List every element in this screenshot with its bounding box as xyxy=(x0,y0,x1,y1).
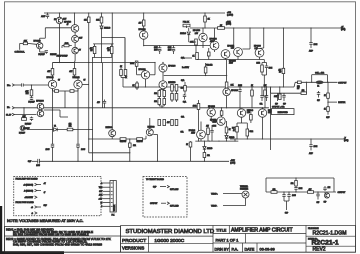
wire feedback bus xyxy=(27,129,93,131)
wire Q2 emitter down xyxy=(39,49,41,52)
wire Q18 to Q18b xyxy=(210,116,212,121)
resistor R47 vert xyxy=(295,181,298,187)
wire pair links xyxy=(124,38,126,70)
wire Q8 collector down xyxy=(143,39,145,45)
capacitor C23 vert xyxy=(295,186,297,187)
svg-text:(-80V): (-80V) xyxy=(230,163,235,165)
wire Q20 top xyxy=(262,108,264,109)
wire Q0 stubs xyxy=(59,13,61,17)
svg-text:1K: 1K xyxy=(233,130,235,132)
svg-text:SLFT L-RED: SLFT L-RED xyxy=(170,206,179,208)
svg-text:PR1 1K: PR1 1K xyxy=(183,22,190,24)
svg-text:1N4148: 1N4148 xyxy=(104,28,110,30)
resistor R40b xyxy=(203,153,206,158)
capacitor C18 xyxy=(277,93,279,95)
svg-text:STUDIOMASTER DIAMOND LTD: STUDIOMASTER DIAMOND LTD xyxy=(126,229,215,235)
wire bias links xyxy=(188,40,190,42)
resistor R25b pair xyxy=(171,94,174,101)
svg-text:1N4148: 1N4148 xyxy=(180,33,186,35)
svg-text:P.A.: P.A. xyxy=(232,247,239,251)
resistor R44 xyxy=(327,93,330,98)
transistor Q8 xyxy=(140,31,148,39)
svg-text:REV2: REV2 xyxy=(313,247,326,253)
transistor Q18 predriver xyxy=(207,108,215,116)
capacitor C4 input xyxy=(21,83,23,86)
wire resistor bottoms xyxy=(94,54,96,58)
capacitor C15 pair xyxy=(266,63,268,66)
svg-text:TITLE: TITLE xyxy=(216,229,227,233)
wire R37 down xyxy=(129,147,131,161)
resistor R8 feedback xyxy=(67,128,73,131)
svg-text:R2C21-1: R2C21-1 xyxy=(312,239,339,246)
wire zobel loop top xyxy=(266,177,334,179)
capacitor C11 vas xyxy=(104,100,106,102)
svg-text:1N4148: 1N4148 xyxy=(229,137,234,139)
connector pin IN+ xyxy=(12,84,14,87)
wire mirror right links xyxy=(44,109,60,111)
resistor R31 xyxy=(197,104,200,110)
connector pin 0V xyxy=(12,107,14,110)
svg-text:MPSA06: MPSA06 xyxy=(229,60,236,63)
wire R9 to D2 xyxy=(101,23,103,26)
revision notes box xyxy=(5,227,121,253)
transistor Q23 xyxy=(197,130,206,139)
wire Q12 links xyxy=(249,28,251,49)
resistor R48 xyxy=(308,191,314,194)
capacitor C8 electrolytic xyxy=(159,46,161,48)
resistor R6 xyxy=(22,118,27,121)
capacitor C22 electrolytic xyxy=(288,192,290,195)
transistor Q13 xyxy=(255,48,264,57)
wire pair to bus xyxy=(261,72,263,75)
inductor L1 coil xyxy=(316,81,324,85)
svg-text:1N4148: 1N4148 xyxy=(207,148,212,150)
resistor R43 xyxy=(301,92,306,95)
svg-text:3V: 3V xyxy=(58,80,60,82)
wire Q17 links xyxy=(226,87,228,89)
capacitor C12 xyxy=(183,94,186,96)
capacitor C19 xyxy=(283,93,285,95)
wire 0VP bus xyxy=(39,160,229,162)
wire rail drop x143.7 xyxy=(143,13,145,20)
wire mid bus y45.6 xyxy=(144,45,213,47)
resistor R30 xyxy=(264,87,266,90)
svg-text:BVREF: BVREF xyxy=(23,128,30,130)
wire emitter mid xyxy=(59,90,71,92)
svg-text:MPSA06: MPSA06 xyxy=(36,100,43,103)
wire Q9 links xyxy=(202,28,204,33)
preset PR2 xyxy=(204,67,207,73)
svg-text:COIL + 10R: COIL + 10R xyxy=(315,73,325,75)
transistor Q17 xyxy=(223,88,231,96)
wire D2 down xyxy=(101,29,103,38)
resistor R20 xyxy=(136,83,139,88)
svg-text:0VP: 0VP xyxy=(324,201,327,203)
svg-text:PRODUCT: PRODUCT xyxy=(122,238,146,244)
wire zobel up xyxy=(305,82,307,93)
resistor R40 xyxy=(189,142,192,147)
svg-text:(80V): (80V) xyxy=(344,140,349,142)
wire +V rail xyxy=(190,27,345,29)
resistor R26 pair xyxy=(175,85,178,92)
capacitor C21 electrolytic xyxy=(283,192,285,195)
resistor R5 Q4 collector xyxy=(74,63,76,69)
wire bus y141 xyxy=(195,140,238,142)
svg-text:+SLP: +SLP xyxy=(99,199,103,201)
scan shadow left edge xyxy=(0,206,2,254)
svg-text:4R7: 4R7 xyxy=(167,122,170,124)
resistor R33 under Q19 xyxy=(241,117,243,123)
svg-text:100U: 100U xyxy=(154,47,158,49)
svg-text:MJE340: MJE340 xyxy=(247,110,253,112)
wire cap drop left xyxy=(52,130,54,145)
svg-text:R47: R47 xyxy=(232,128,235,130)
svg-text:AMPLIFIER AMP CIRCUIT: AMPLIFIER AMP CIRCUIT xyxy=(231,228,293,234)
connector pin SL xyxy=(12,113,14,116)
svg-text:OUTPUT: OUTPUT xyxy=(338,82,347,84)
wire y152.8 stub xyxy=(89,152,130,154)
wire input+ xyxy=(14,84,21,86)
resistor R41b pair xyxy=(263,60,265,63)
capacitor C4b xyxy=(31,96,33,98)
svg-text:MJ15003: MJ15003 xyxy=(106,127,113,129)
transistor Q0 rail xyxy=(56,17,63,24)
wire rail drop x101.5 xyxy=(101,13,103,17)
wire Q3b down to bus xyxy=(74,54,76,61)
transistor Q21 output xyxy=(109,130,116,137)
capacitor C19c pair xyxy=(266,87,268,95)
resistor R3 bias xyxy=(31,85,33,90)
transistor Q3b stack xyxy=(72,47,79,54)
resistor R39 xyxy=(225,127,228,133)
svg-text:MPSA06: MPSA06 xyxy=(208,105,215,108)
wire Q19 top xyxy=(239,108,241,109)
transistor Q4 diff pair right xyxy=(74,80,82,88)
resistor ladder right b xyxy=(171,120,174,126)
resistor R2b bias cluster xyxy=(64,44,69,47)
resistor R14 xyxy=(218,27,225,30)
wire zobel bottom xyxy=(266,191,336,193)
wire bias bottom bus xyxy=(197,59,264,61)
transistor Q20 driver xyxy=(258,109,266,117)
wire temp- xyxy=(223,205,246,207)
svg-text:SLFT L-BLU: SLFT L-BLU xyxy=(170,189,178,191)
wire output line xyxy=(295,81,337,83)
resistor R28 xyxy=(225,82,228,88)
svg-text:D1: D1 xyxy=(54,126,56,128)
wire zobel caps join xyxy=(283,199,285,201)
wire 0VA stub xyxy=(181,57,193,59)
svg-text:OUTPUT: OUTPUT xyxy=(150,203,158,205)
diode D5 xyxy=(203,141,205,146)
capacitor C20 xyxy=(317,92,320,94)
wire Q13 links xyxy=(263,28,265,48)
transistor Q12 xyxy=(234,48,243,57)
svg-text:1.2V: 1.2V xyxy=(231,47,234,49)
capacitor C7 electrolytic xyxy=(76,143,79,145)
resistor R1 xyxy=(23,42,27,45)
wire Q22 base drop xyxy=(149,118,151,129)
svg-text:FILE NAME: FILE NAME xyxy=(308,227,319,230)
svg-text:NOTE: VOLTAGES MEASURED AT 230: NOTE: VOLTAGES MEASURED AT 230V A.C. xyxy=(7,219,83,223)
svg-text:R2C21-1.DGM: R2C21-1.DGM xyxy=(313,230,347,236)
svg-text:45MV: 45MV xyxy=(212,122,216,124)
resistor R23 grid xyxy=(158,99,161,105)
svg-text:3V: 3V xyxy=(79,49,81,51)
capacitor C19b pair xyxy=(261,87,263,95)
diode D3 xyxy=(188,28,190,31)
resistor R43b xyxy=(279,94,282,100)
resistor R19 pair b xyxy=(124,70,127,76)
svg-text:TEMP-: TEMP- xyxy=(211,205,218,207)
wire +V drop x283.4 xyxy=(282,28,284,68)
wire bus jog to output xyxy=(294,82,295,87)
capacitor C17 xyxy=(309,144,312,146)
wire control to R1 xyxy=(20,42,24,44)
transistor Q2b stack xyxy=(72,35,79,42)
svg-text:MPSA06: MPSA06 xyxy=(231,89,238,92)
svg-text:MPSA06: MPSA06 xyxy=(254,45,261,48)
capacitor C2 0VP bus series xyxy=(37,159,39,164)
wire -V rail xyxy=(230,138,345,140)
svg-text:1K: 1K xyxy=(186,144,188,146)
svg-text:0VP: 0VP xyxy=(275,103,278,105)
wire x279.8 drop xyxy=(279,87,281,94)
wire R10 to Q8 xyxy=(143,26,145,31)
transistor Q9 xyxy=(199,33,207,41)
thermal breaker B1 xyxy=(242,191,249,198)
wire y75.5 link bus xyxy=(164,75,227,77)
wire to 0VP xyxy=(327,111,329,115)
svg-text:4V: 4V xyxy=(67,24,69,26)
wire zobel left leg xyxy=(265,178,267,192)
resistor R11 xyxy=(94,44,96,47)
transistor Q22 output xyxy=(146,129,153,136)
svg-text:4K7: 4K7 xyxy=(278,69,281,71)
wire long drop x92.5 xyxy=(92,57,94,161)
svg-text:1K: 1K xyxy=(229,129,231,131)
svg-text:BVREF: BVREF xyxy=(38,54,45,56)
svg-text:L1: L1 xyxy=(317,85,319,87)
wire R17 to Q14 base xyxy=(136,66,138,75)
svg-text:100N: 100N xyxy=(213,126,217,128)
svg-text:3V: 3V xyxy=(84,80,86,82)
transistor Q1 xyxy=(71,25,79,33)
wire drop x125 xyxy=(124,38,126,74)
svg-text:PR2 2K2: PR2 2K2 xyxy=(206,64,212,66)
svg-text:(80V): (80V) xyxy=(341,29,346,31)
wire feedback column top xyxy=(88,13,90,17)
title block frame xyxy=(121,226,356,253)
capacitor C6 electrolytic xyxy=(51,143,54,145)
wire meter branch xyxy=(327,82,329,93)
svg-text:0VP: 0VP xyxy=(283,103,286,105)
svg-text:CONTROL: CONTROL xyxy=(15,52,26,54)
resistor R26b pair xyxy=(175,94,178,101)
svg-text:0VP: 0VP xyxy=(317,100,320,102)
wire -V drop xyxy=(234,139,236,141)
svg-text:PL1: PL1 xyxy=(111,214,114,216)
resistor R15b xyxy=(196,53,199,60)
wire vas top bus xyxy=(53,62,156,64)
wire x59.5 feed down xyxy=(59,28,61,63)
resistor R38 pair xyxy=(207,128,210,135)
wire diff emitters xyxy=(52,89,54,91)
svg-text:0VP: 0VP xyxy=(316,202,319,204)
svg-text:DRN BY: DRN BY xyxy=(215,247,230,251)
svg-text:-B: -B xyxy=(31,213,33,215)
wire long drop x112.25 xyxy=(111,13,113,130)
svg-text:100U: 100U xyxy=(168,47,172,49)
svg-text:METER: METER xyxy=(338,102,346,104)
svg-text:SL 1P: SL 1P xyxy=(6,115,12,117)
resistor R34b inter-driver xyxy=(250,115,253,121)
wire pair links xyxy=(207,135,209,142)
resistor R21 grid xyxy=(158,91,161,97)
svg-text:45MV: 45MV xyxy=(191,132,195,134)
capacitor C13 xyxy=(239,87,241,90)
svg-text:MPSA56: MPSA56 xyxy=(193,29,200,32)
wire Q4 collector down xyxy=(77,89,79,130)
transistor Q14 xyxy=(141,71,149,79)
wire emitter center node xyxy=(129,138,130,139)
svg-text:MJ15003: MJ15003 xyxy=(148,127,155,129)
resistor ladder right a xyxy=(158,120,161,126)
capacitor C16 xyxy=(309,42,312,44)
wire 0V feedback bus xyxy=(14,107,269,109)
wire Q2b to Q3b xyxy=(74,42,76,47)
resistor R15 xyxy=(195,39,198,45)
svg-text:IN-: IN- xyxy=(7,107,10,109)
transistor Q19 driver xyxy=(237,109,245,117)
wire emitter bus xyxy=(89,138,146,140)
svg-text:REMOVED: REMOVED xyxy=(278,112,289,114)
resistor R42s series xyxy=(298,81,302,84)
svg-text:10N: 10N xyxy=(328,187,331,189)
wire Q15 links xyxy=(162,63,164,64)
wire vas mid bus y87 xyxy=(123,86,294,88)
svg-text:4K7: 4K7 xyxy=(206,126,209,128)
svg-text:(+80V): (+80V) xyxy=(226,24,232,26)
wire SL input xyxy=(14,114,36,116)
wire cross link xyxy=(102,37,126,39)
wire Q1 base chain xyxy=(45,27,71,29)
svg-text:MPSA92: MPSA92 xyxy=(138,28,145,31)
svg-text:4K7: 4K7 xyxy=(138,23,141,25)
transistor Q2 control xyxy=(37,43,43,49)
wire Q4 base feedback xyxy=(82,83,89,85)
resistor R34 under Q20 xyxy=(242,122,248,124)
svg-text:-B (BRIDGE): -B (BRIDGE) xyxy=(24,190,34,192)
capacitor C9 electrolytic xyxy=(173,46,175,48)
svg-text:100V: 100V xyxy=(168,49,172,51)
resistor R17 xyxy=(136,61,138,63)
transistor Q6 mirror bottom xyxy=(37,110,44,117)
connector PL1 body xyxy=(110,181,116,213)
wire small bus y44 left xyxy=(93,43,114,45)
svg-text:BVREF: BVREF xyxy=(19,132,26,134)
svg-text:100U: 100U xyxy=(36,165,40,167)
wire Q10 links xyxy=(214,28,216,41)
wire Q20 emitter down xyxy=(262,117,264,139)
wire Q1 to Q2b xyxy=(74,32,76,35)
svg-text:4K7: 4K7 xyxy=(90,48,93,50)
resistor R5a emitter xyxy=(55,90,59,93)
svg-text:BVREF: BVREF xyxy=(28,102,35,104)
diode D1 feedback xyxy=(54,128,58,132)
svg-text:2K2: 2K2 xyxy=(26,93,29,95)
wire Q2 collector up xyxy=(39,38,41,42)
resistor R25 pair xyxy=(171,85,174,92)
wire control drop xyxy=(19,43,21,49)
capacitor C1 rail decoupling xyxy=(47,13,49,15)
svg-text:4K7: 4K7 xyxy=(107,48,110,50)
wire temp+ xyxy=(223,193,242,195)
resistor R5b emitter xyxy=(70,90,74,93)
wire mirror junction xyxy=(23,107,24,108)
svg-text:VERSIONS: VERSIONS xyxy=(122,245,144,250)
svg-text:4R7: 4R7 xyxy=(309,189,312,191)
transistor Q11 xyxy=(221,50,230,59)
wire grid links xyxy=(159,89,164,91)
connector group TO TRNSYT BOARD xyxy=(143,177,187,218)
wire bias cluster xyxy=(69,45,72,47)
resistor R37 xyxy=(129,143,132,147)
resistor R10 xyxy=(142,20,145,26)
resistor R4 Q3 collector xyxy=(52,63,54,69)
svg-text:1K: 1K xyxy=(324,109,326,111)
svg-text:PART 1 OF 1: PART 1 OF 1 xyxy=(216,237,239,242)
resistor R29 xyxy=(251,87,253,90)
svg-text:DATE: DATE xyxy=(245,247,255,251)
resistor R45 xyxy=(327,107,330,112)
wire Q22 right jog xyxy=(153,134,157,136)
wire to 0VP bus xyxy=(203,158,205,162)
transistor Q10 xyxy=(210,41,219,50)
svg-text:BVREF BVREF: BVREF BVREF xyxy=(56,55,67,57)
svg-text:45MV: 45MV xyxy=(229,63,233,65)
wire +V2 top rail xyxy=(44,12,225,14)
connector group FROM AMP SW BOARD xyxy=(14,177,101,216)
wire R41 to bus xyxy=(282,74,284,87)
svg-text:+B: +B xyxy=(31,207,33,209)
wire zobel right leg xyxy=(333,178,335,192)
resistor R18 pair a xyxy=(120,70,123,76)
resistor R46 xyxy=(271,191,277,194)
svg-text:BVREF: BVREF xyxy=(25,124,32,126)
transistor Q3 diff pair left xyxy=(48,80,56,88)
wire Q23 links xyxy=(200,122,202,131)
svg-text:MPSA92: MPSA92 xyxy=(138,68,145,71)
diode D4 xyxy=(226,133,228,136)
svg-text:4K7: 4K7 xyxy=(47,71,50,73)
wire meter node xyxy=(327,98,329,106)
resistor R16 small xyxy=(207,52,210,56)
svg-text:+B (BRIDGE): +B (BRIDGE) xyxy=(23,184,33,186)
capacitor C24 xyxy=(317,192,319,194)
wire Q1 emitter to rail xyxy=(74,13,76,25)
svg-text:1K: 1K xyxy=(324,95,326,97)
svg-text:MPSA06: MPSA06 xyxy=(210,38,217,41)
transistor Q5 mirror top xyxy=(37,103,44,110)
svg-text:1G000 2000C: 1G000 2000C xyxy=(154,238,184,244)
svg-text:0R22 5W: 0R22 5W xyxy=(136,141,143,143)
svg-text:3.5V: 3.5V xyxy=(79,37,82,39)
svg-text:0R22: 0R22 xyxy=(250,131,254,133)
wire -V drop x311 cap xyxy=(310,139,312,145)
svg-text:MPSA56: MPSA56 xyxy=(227,44,234,47)
wire diff pair top xyxy=(53,62,75,64)
